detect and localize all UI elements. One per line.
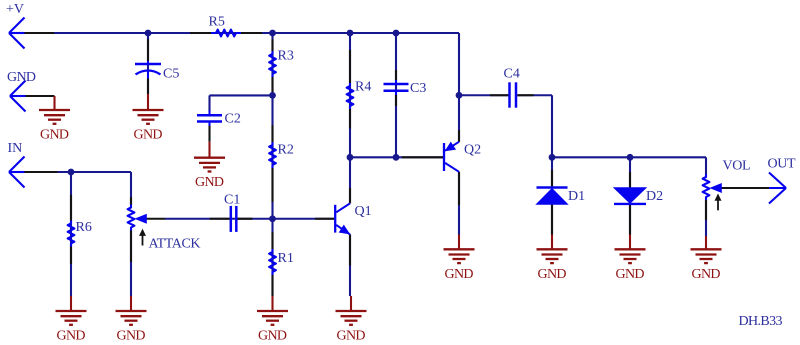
svg-text:C1: C1 [224,192,240,207]
svg-text:GND: GND [134,128,163,143]
svg-text:GND: GND [57,329,86,344]
svg-text:D2: D2 [646,189,663,204]
svg-text:VOL: VOL [723,158,751,173]
svg-text:GND: GND [117,329,146,344]
svg-text:GND: GND [692,267,721,282]
svg-text:R1: R1 [278,251,294,266]
svg-text:GND: GND [40,128,69,143]
svg-text:DH.B33: DH.B33 [739,314,783,329]
svg-text:C4: C4 [504,66,520,81]
svg-text:Q2: Q2 [464,143,481,158]
svg-text:R2: R2 [278,143,294,158]
svg-text:GND: GND [258,329,287,344]
svg-text:D1: D1 [568,189,585,204]
svg-text:ATTACK: ATTACK [149,237,201,252]
svg-text:GND: GND [445,267,474,282]
svg-text:C2: C2 [225,112,241,127]
svg-text:GND: GND [616,267,645,282]
svg-text:R3: R3 [278,49,294,64]
svg-text:GND: GND [337,329,366,344]
svg-text:IN: IN [8,141,23,156]
svg-text:Q1: Q1 [355,204,372,219]
svg-text:GND: GND [7,70,36,85]
svg-text:+V: +V [6,2,24,17]
svg-text:R6: R6 [76,220,92,235]
svg-text:R4: R4 [355,80,371,95]
svg-text:GND: GND [538,267,567,282]
svg-text:R5: R5 [209,14,225,29]
svg-text:GND: GND [195,175,224,190]
svg-text:OUT: OUT [768,157,796,172]
svg-text:C3: C3 [410,81,426,96]
svg-text:C5: C5 [163,67,179,82]
